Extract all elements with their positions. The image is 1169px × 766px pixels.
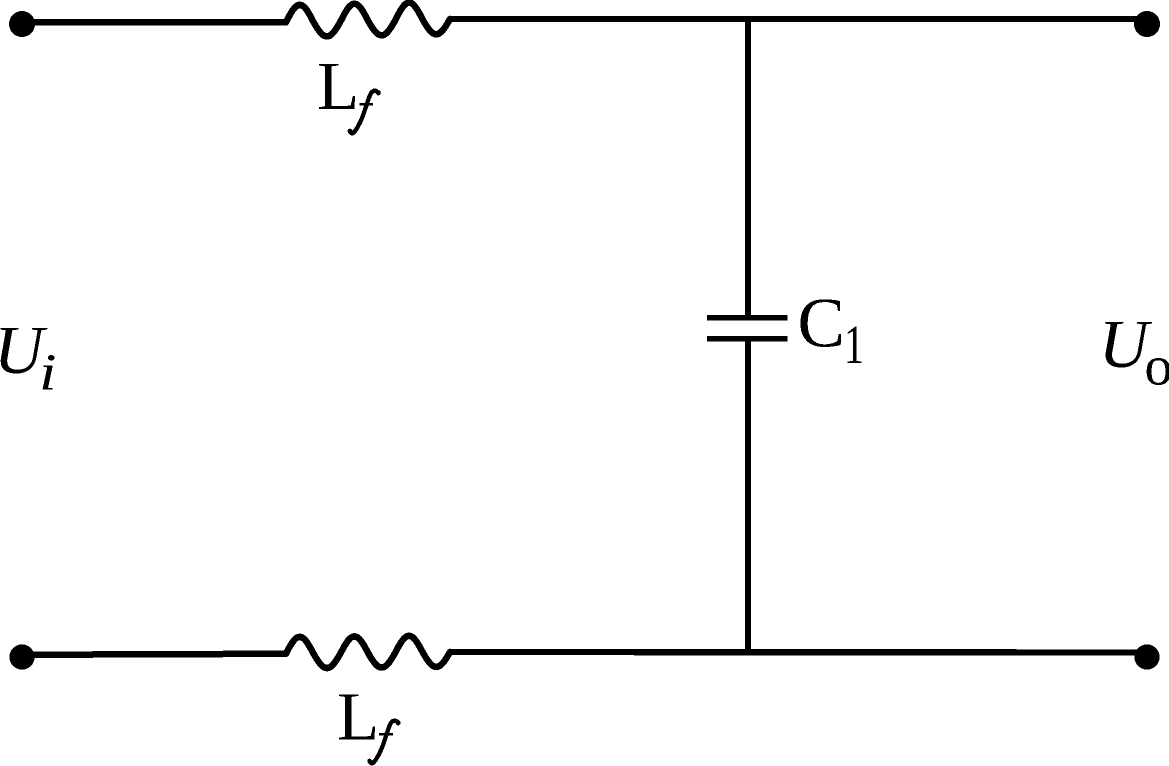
svg-text:C: C: [798, 285, 845, 363]
svg-text:L: L: [317, 48, 359, 124]
svg-text:i: i: [39, 343, 57, 401]
svg-text:o: o: [1145, 336, 1169, 398]
svg-text:L: L: [337, 679, 379, 755]
svg-text:1: 1: [844, 314, 864, 376]
